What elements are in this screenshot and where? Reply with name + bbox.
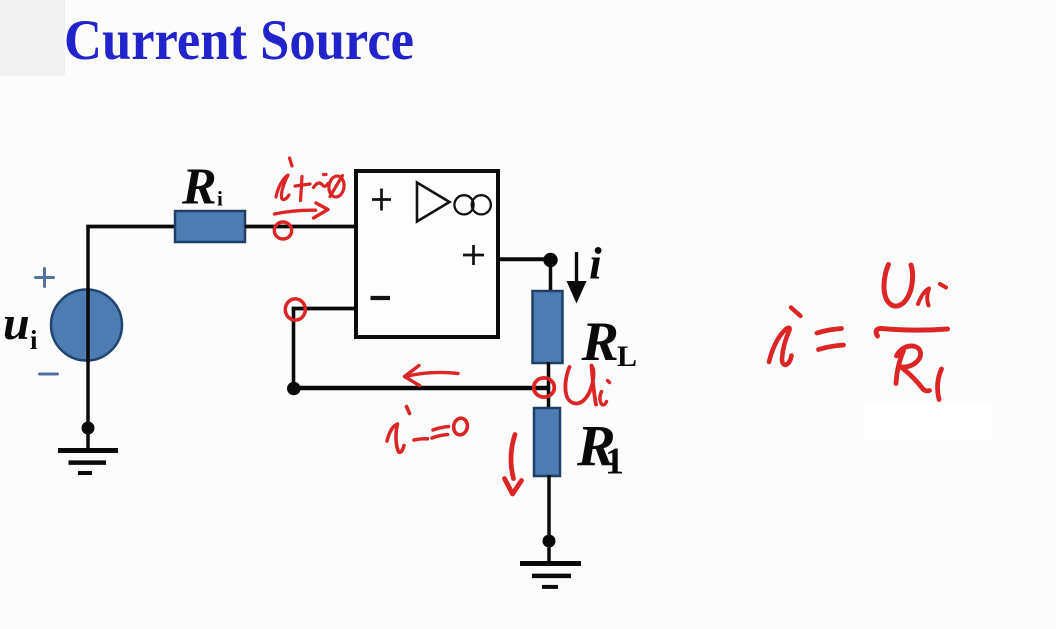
op-amp output + sign	[463, 245, 484, 265]
red U_i : U	[565, 366, 596, 405]
wire output down to R_L	[549, 260, 553, 293]
resistor R1	[534, 408, 560, 476]
wire R_i to op-amp	[245, 225, 356, 229]
arrow i	[575, 252, 578, 284]
annotation i+ tick	[290, 158, 293, 166]
wire feedback horizontal	[294, 386, 549, 391]
wire - input stub	[292, 307, 356, 311]
junction dot right ground	[543, 535, 556, 548]
op-amp U1 box	[356, 171, 498, 337]
formula subscript 1	[938, 369, 942, 400]
plus sign of source	[36, 269, 54, 287]
ground right	[520, 564, 581, 587]
red left arrow	[406, 373, 459, 377]
formula U subscript i	[918, 289, 929, 306]
annotation minus subscript	[414, 439, 428, 440]
annotation i- cursive	[387, 424, 404, 452]
red annotations	[274, 158, 947, 494]
formula i	[769, 328, 792, 365]
svg-text:L: L	[617, 340, 637, 373]
formula i accent	[791, 308, 801, 317]
minus sign of source	[40, 373, 58, 376]
red down arrow at R1	[511, 435, 515, 479]
wire left vertical	[86, 225, 90, 450]
formula R stem	[896, 351, 904, 384]
voltage source u_i	[51, 290, 122, 361]
junction dot feedback	[287, 382, 301, 396]
red circle on - input	[285, 299, 305, 320]
svg-text:R: R	[581, 311, 619, 373]
formula fraction bar	[876, 328, 947, 336]
op-amp - input sign	[371, 296, 391, 300]
svg-text:1: 1	[605, 441, 624, 483]
red circle on + input wire	[274, 222, 291, 239]
annotation i+ approx 0 : cursive i	[276, 175, 289, 200]
svg-text:i: i	[217, 187, 223, 211]
formula equals	[817, 329, 842, 334]
red node circle U_i	[534, 378, 555, 397]
formula R loop	[897, 346, 921, 367]
svg-text:u: u	[3, 297, 30, 350]
resistor R_i	[175, 211, 245, 242]
svg-text:R: R	[181, 159, 217, 216]
wire R1 to ground	[547, 475, 551, 562]
svg-text:i: i	[589, 238, 602, 289]
red U_i : i	[600, 392, 607, 405]
op-amp + input sign	[372, 189, 391, 211]
annotation plus sign	[301, 177, 303, 201]
infinity symbol	[454, 195, 491, 214]
junction dot output	[543, 253, 557, 267]
annotation zero slashed	[328, 175, 346, 198]
junction dot left ground	[82, 422, 95, 435]
wire feedback vertical	[292, 307, 296, 388]
wire top horizontal	[86, 225, 175, 229]
annotation tilde	[314, 183, 329, 188]
annotation i- = 0 tick	[407, 407, 410, 414]
wire op-amp output	[498, 257, 551, 261]
ground left	[58, 451, 118, 474]
red arrow right	[275, 210, 316, 214]
formula U	[884, 265, 913, 307]
annotation equals	[433, 427, 449, 431]
svg-text:Current Source: Current Source	[64, 9, 414, 72]
resistor R_L	[533, 291, 563, 363]
formula R leg	[901, 367, 930, 391]
op-amp triangle	[417, 183, 450, 222]
svg-text:i: i	[30, 325, 38, 355]
wire between R_L and R1	[547, 362, 551, 409]
annotation zero	[452, 417, 468, 436]
